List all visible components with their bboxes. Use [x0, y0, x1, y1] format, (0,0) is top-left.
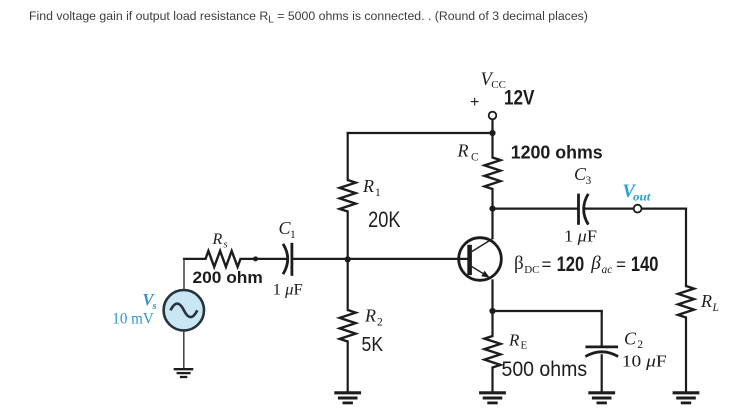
svg-text:3: 3	[586, 175, 592, 187]
svg-text:2: 2	[637, 339, 643, 351]
svg-text:DC: DC	[524, 264, 539, 276]
svg-text:200 ohm: 200 ohm	[193, 269, 263, 287]
svg-text:E: E	[521, 339, 528, 351]
svg-text:out: out	[633, 192, 651, 204]
svg-text:500 ohms: 500 ohms	[502, 358, 588, 381]
svg-text:L: L	[712, 302, 719, 314]
svg-text:140: 140	[631, 252, 659, 276]
svg-text:C: C	[624, 329, 637, 349]
svg-text:=: =	[616, 255, 626, 274]
svg-text:C: C	[471, 152, 479, 164]
svg-text:ac: ac	[602, 264, 613, 276]
svg-text:1 μF: 1 μF	[273, 281, 303, 298]
svg-text:R: R	[364, 306, 376, 326]
svg-text:20K: 20K	[368, 207, 401, 232]
svg-text:1: 1	[290, 229, 296, 241]
svg-text:=: =	[542, 255, 552, 274]
svg-text:R: R	[212, 231, 223, 248]
svg-text:10 μF: 10 μF	[622, 351, 667, 370]
svg-text:1: 1	[375, 187, 381, 199]
svg-text:10 mV: 10 mV	[112, 311, 154, 328]
svg-text:1 μF: 1 μF	[564, 227, 597, 246]
svg-text:2: 2	[377, 317, 383, 329]
svg-text:R: R	[508, 330, 520, 349]
svg-text:Find voltage gain if output lo: Find voltage gain if output load resista…	[29, 9, 588, 26]
svg-text:120: 120	[557, 252, 585, 276]
svg-text:R: R	[700, 291, 712, 311]
svg-text:12V: 12V	[504, 85, 535, 109]
svg-text:β: β	[514, 253, 524, 274]
svg-text:+: +	[470, 94, 479, 111]
svg-text:β: β	[590, 253, 601, 274]
svg-text:R: R	[362, 176, 374, 196]
svg-text:1200 ohms: 1200 ohms	[511, 142, 603, 163]
svg-text:5K: 5K	[362, 334, 384, 356]
svg-text:s: s	[224, 240, 228, 251]
svg-text:R: R	[457, 141, 469, 161]
